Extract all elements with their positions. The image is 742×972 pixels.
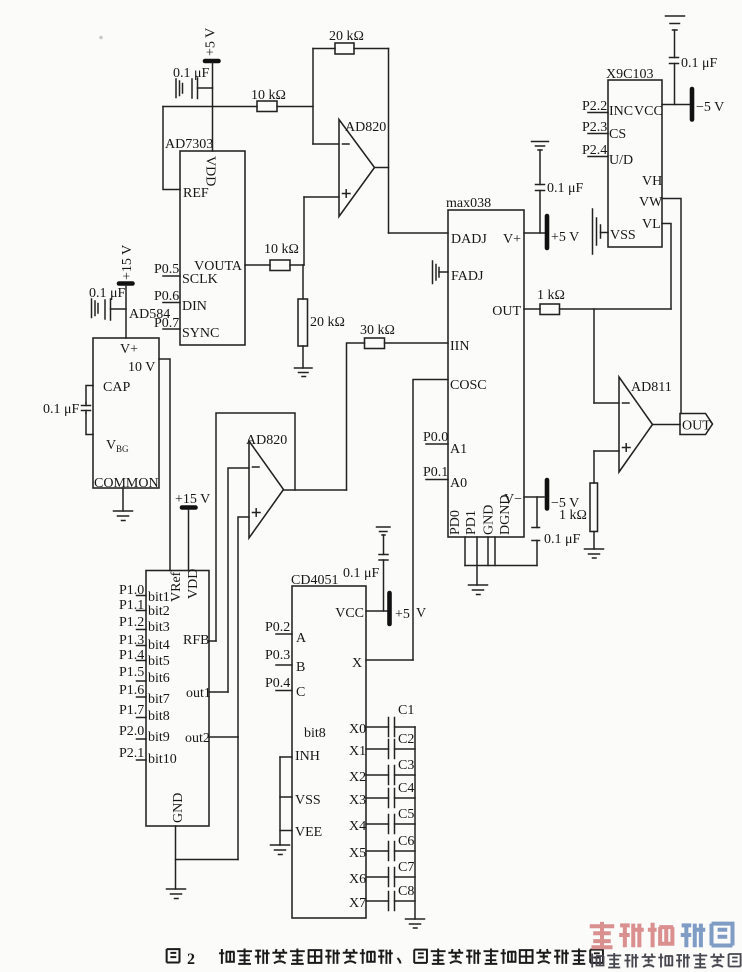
P0.5 net stub	[154, 262, 180, 277]
wire output	[653, 424, 681, 426]
svg-text:P2.0: P2.0	[119, 724, 144, 739]
svg-text:INH: INH	[295, 749, 320, 764]
pin VDD (rotated label)	[203, 156, 218, 186]
svg-text:VSS: VSS	[295, 793, 321, 808]
svg-text:DGND: DGND	[498, 495, 513, 535]
0.1 uF value label	[43, 402, 80, 417]
wire 1k to ground	[593, 532, 595, 550]
svg-text:VL: VL	[642, 217, 661, 232]
resistor 1 kOhm (to -5V)	[559, 483, 598, 532]
node OUT tag	[680, 414, 713, 435]
pin X1 with capacitor C2	[349, 732, 415, 759]
plus sign	[343, 190, 351, 197]
svg-text:REF: REF	[183, 186, 209, 201]
watermark 培训 (blue)	[681, 924, 733, 948]
resistor 10 kOhm (input)	[251, 88, 286, 112]
pin GND (rotated)	[482, 505, 497, 535]
pin IIN	[450, 339, 469, 354]
capacitor 0.1uF (max038 V+ decoupling)	[536, 150, 545, 233]
wire COSC down to CD4051 X	[413, 380, 448, 661]
wire OUT node	[560, 308, 672, 310]
svg-text:C8: C8	[398, 884, 414, 899]
wire VW to output node	[662, 199, 681, 414]
-5 V label	[551, 496, 579, 511]
watermark subtitle 射频和天线设计专家 (gray)	[590, 953, 741, 968]
power +15V terminal bar	[119, 281, 133, 286]
svg-text:X: X	[352, 656, 362, 671]
svg-text:X4: X4	[349, 819, 366, 834]
pin X0 with capacitor C1	[349, 703, 415, 737]
capacitor 0.1uF (AD584 supply decoupling)	[92, 299, 127, 320]
svg-text:C5: C5	[398, 807, 414, 822]
pin X7 with capacitor C8	[349, 884, 415, 911]
+15 V label	[175, 492, 210, 507]
caption: 图 2 信号源发生器频率控制、占空比调节和幅度调节电路	[167, 949, 180, 962]
IC max038 body	[446, 196, 524, 537]
svg-text:CS: CS	[609, 127, 626, 142]
wire VCC to -5V	[662, 104, 690, 106]
svg-text:bit8: bit8	[304, 726, 326, 741]
pin bit6 with P1.5 stub	[119, 665, 170, 686]
pin A with P0.2 stub	[265, 620, 307, 646]
wire feedback loop (RFB)	[216, 413, 295, 641]
capacitor 0.1uF (V- decoupling)	[532, 497, 540, 566]
svg-text:SCLK: SCLK	[182, 272, 218, 287]
svg-text:X6: X6	[349, 872, 366, 887]
svg-text:1 kΩ: 1 kΩ	[559, 508, 587, 523]
svg-text:AD820: AD820	[246, 433, 287, 448]
capacitor 0.1uF (AD7303 supply decoupling)	[176, 78, 213, 99]
svg-text:X0: X0	[349, 722, 366, 737]
svg-text:V+: V+	[120, 342, 138, 357]
svg-text:+5 V: +5 V	[551, 230, 579, 245]
wire GND to ground	[176, 826, 239, 889]
ground (DAC)	[167, 889, 186, 899]
svg-text:A1: A1	[450, 442, 467, 457]
svg-text:VDD: VDD	[203, 156, 218, 186]
power +5V terminal bar (max038)	[545, 216, 550, 248]
chassis ground (VSS)	[593, 209, 609, 254]
svg-text:P0.2: P0.2	[265, 620, 290, 635]
pin INH	[280, 749, 320, 764]
-5 V label	[696, 100, 724, 115]
svg-text:P0.4: P0.4	[265, 676, 290, 691]
wire VOUTA node down	[302, 265, 304, 299]
pin U/D with P2.4 stub	[582, 143, 633, 168]
svg-text:2: 2	[187, 951, 195, 968]
svg-text:A: A	[296, 631, 307, 646]
svg-text:AD811: AD811	[631, 380, 672, 395]
pin COSC	[450, 378, 487, 393]
wire V+ to +5V	[524, 232, 545, 234]
power +15V terminal bar (DAC)	[182, 505, 196, 510]
pin B with P0.3 stub	[265, 648, 305, 675]
op-amp U4 AD811	[619, 377, 672, 472]
power +5V terminal bar (CD4051)	[387, 593, 392, 624]
wire corner down to REF pin	[163, 107, 180, 190]
IC AD584 body	[93, 307, 170, 488]
svg-text:DIN: DIN	[182, 299, 207, 314]
minus sign	[343, 143, 350, 145]
svg-text:CAP: CAP	[103, 380, 130, 395]
svg-text:VW: VW	[639, 195, 663, 210]
svg-text:VH: VH	[642, 174, 662, 189]
pin VH	[642, 174, 662, 189]
pin X3 with capacitor C4	[349, 781, 415, 808]
plus sign	[623, 444, 631, 451]
IC AD7303 body	[165, 137, 245, 345]
svg-text:C1: C1	[398, 703, 414, 718]
svg-text:V+: V+	[503, 232, 521, 247]
wire +15V to VDD	[188, 510, 190, 571]
resistor 10 kOhm (VOUTA)	[264, 242, 299, 271]
P0.7 net stub	[154, 316, 180, 331]
svg-text:U/D: U/D	[609, 153, 633, 168]
hanging ground (V+ decoupling)	[532, 142, 549, 151]
pin DIN	[182, 299, 207, 314]
svg-text:B: B	[296, 660, 305, 675]
pin VW	[639, 195, 663, 210]
pin CS with P2.3 stub	[582, 120, 626, 142]
svg-text:C6: C6	[398, 834, 414, 849]
svg-text:+15 V: +15 V	[175, 492, 210, 507]
ground (AD584)	[114, 511, 133, 521]
svg-text:0.1 μF: 0.1 μF	[89, 286, 126, 301]
svg-text:V: V	[106, 438, 116, 453]
svg-text:bit8: bit8	[148, 709, 170, 724]
svg-text:VSS: VSS	[610, 228, 636, 243]
svg-text:out1: out1	[186, 686, 211, 701]
svg-text:DADJ: DADJ	[451, 232, 487, 247]
svg-text:CD4051: CD4051	[291, 573, 338, 588]
svg-text:OUT: OUT	[682, 419, 711, 434]
pin RFB	[183, 633, 216, 648]
0.1 uF value label	[547, 181, 584, 196]
pin VEE	[280, 825, 322, 840]
pin bit7 with P1.6 stub	[119, 683, 170, 707]
svg-text:PD1: PD1	[464, 510, 479, 535]
wire IIN	[347, 343, 449, 490]
wire COMMON to ground	[122, 488, 124, 511]
ground (digital)	[469, 585, 488, 595]
svg-text:P1.7: P1.7	[119, 703, 144, 718]
svg-text:BG: BG	[116, 444, 129, 454]
svg-text:0.1 μF: 0.1 μF	[547, 181, 584, 196]
svg-text:VCC: VCC	[634, 104, 663, 119]
pin out1	[186, 686, 228, 701]
svg-text:30 kΩ: 30 kΩ	[360, 323, 395, 338]
pin X5 with capacitor C6	[349, 834, 415, 861]
svg-text:AD7303: AD7303	[165, 137, 213, 152]
ground (CD4051)	[271, 845, 290, 855]
svg-text:C7: C7	[398, 860, 414, 875]
wire 10V output to DAC VRef	[159, 359, 170, 571]
svg-text:out2: out2	[185, 731, 210, 746]
pin GND (rotated)	[171, 793, 186, 823]
power -5V terminal bar (X9C103)	[690, 89, 695, 120]
svg-text:max038: max038	[446, 196, 491, 211]
wire non-inverting input from out2	[238, 517, 249, 737]
plus sign	[253, 509, 261, 516]
chassis ground (FADJ)	[433, 261, 449, 284]
svg-text:X1: X1	[349, 744, 366, 759]
label bit8	[304, 726, 326, 741]
svg-text:X5: X5	[349, 846, 366, 861]
wire VL to 1k node	[662, 224, 671, 310]
wire non-inverting input	[594, 451, 619, 483]
wire OUT to 1k	[524, 308, 540, 310]
wire inverting input from out1	[228, 468, 249, 692]
svg-text:P1.2: P1.2	[119, 615, 144, 630]
svg-text:20 kΩ: 20 kΩ	[329, 29, 364, 44]
svg-text:C2: C2	[398, 732, 414, 747]
pin VCC	[335, 606, 387, 621]
IC CD4051 body	[291, 573, 366, 918]
svg-text:0.1 μF: 0.1 μF	[173, 66, 210, 81]
svg-text:V: V	[416, 606, 426, 621]
svg-text:P0.5: P0.5	[154, 262, 179, 277]
svg-text:+5: +5	[395, 607, 410, 622]
pin SYNC	[182, 326, 219, 341]
svg-text:INC: INC	[609, 104, 633, 119]
watermark 易迪拓 (red)	[590, 922, 674, 947]
svg-text:P1.5: P1.5	[119, 665, 144, 680]
svg-text:OUT: OUT	[492, 304, 521, 319]
minus sign	[623, 402, 630, 404]
0.1 uF value label	[343, 566, 380, 581]
op-amp U3 AD820	[246, 433, 287, 538]
svg-text:bit7: bit7	[148, 692, 170, 707]
svg-text:AD820: AD820	[345, 120, 386, 135]
pin A0 with P0.1 stub	[423, 465, 467, 491]
pin V-	[504, 492, 522, 507]
capacitor 0.1uF (CD4051 decoupling)	[379, 535, 388, 611]
wire REF/10k node (horizontal)	[163, 106, 313, 108]
pin VL	[642, 217, 661, 232]
svg-text:0.1 μF: 0.1 μF	[343, 566, 380, 581]
svg-text:P1.6: P1.6	[119, 683, 144, 698]
pin bit3 with P1.2 stub	[119, 615, 170, 635]
wire V- to -5V	[524, 496, 544, 498]
wire output to 30k	[284, 489, 347, 491]
0.1 uF value label	[544, 532, 581, 547]
resistor 1 kOhm (OUT)	[537, 288, 565, 315]
pin DGND (rotated)	[498, 495, 513, 535]
pin bit10 with P2.1 stub	[119, 746, 177, 767]
wire capacitor bus	[414, 727, 416, 919]
pin X	[352, 656, 413, 671]
pin VCC	[634, 104, 663, 119]
svg-text:10 V: 10 V	[128, 360, 155, 375]
wire resistor to ground	[302, 346, 304, 368]
svg-text:P0.0: P0.0	[423, 430, 448, 445]
ground (capacitor bus)	[406, 919, 425, 928]
pin bit2 with P1.1 stub	[119, 598, 170, 619]
svg-text:1 kΩ: 1 kΩ	[537, 288, 565, 303]
pin VOUTA	[194, 259, 243, 274]
wire op-amp output to DADJ	[375, 168, 449, 234]
svg-text:RFB: RFB	[183, 633, 209, 648]
pin bit5 with P1.4 stub	[119, 648, 170, 669]
pin PD1 (rotated)	[464, 510, 479, 535]
power +5V terminal bar (top)	[205, 59, 219, 64]
svg-text:0.1 μF: 0.1 μF	[544, 532, 581, 547]
svg-text:AD584: AD584	[129, 307, 170, 322]
svg-text:bit9: bit9	[148, 730, 170, 745]
svg-text:COSC: COSC	[450, 378, 487, 393]
pin VBG	[106, 438, 129, 454]
svg-text:20 kΩ: 20 kΩ	[310, 315, 345, 330]
pin PD0 (rotated)	[448, 510, 463, 535]
pin SCLK	[182, 272, 218, 287]
svg-text:VRef: VRef	[169, 571, 184, 602]
svg-text:COMMON: COMMON	[94, 476, 159, 491]
pin bit9 with P2.0 stub	[119, 724, 170, 745]
svg-text:0.1 μF: 0.1 μF	[43, 402, 80, 417]
pin INC with P2.2 stub	[582, 99, 633, 119]
svg-text:X9C103: X9C103	[606, 67, 653, 82]
svg-text:X3: X3	[349, 793, 366, 808]
minus sign	[253, 466, 260, 468]
capacitor 0.1uF (CAP pin loop)	[82, 386, 94, 435]
pin VDD (rotated)	[186, 569, 201, 599]
pin REF	[183, 186, 209, 201]
wire INH/VSS/VEE bus to ground	[279, 757, 281, 845]
svg-text:0.1 μF: 0.1 μF	[681, 56, 718, 71]
svg-text:IIN: IIN	[450, 339, 469, 354]
hanging ground (VCC decoupling)	[666, 16, 685, 30]
pin FADJ	[451, 269, 484, 284]
pin X6 with capacitor C7	[349, 860, 415, 887]
pin VSS	[280, 793, 321, 808]
pin out2	[185, 731, 238, 746]
svg-text:GND: GND	[171, 793, 186, 823]
0.1 uF value label	[173, 66, 210, 81]
svg-text:bit1: bit1	[148, 590, 170, 605]
svg-text:FADJ: FADJ	[451, 269, 484, 284]
pin VRef (rotated)	[169, 571, 184, 602]
pin bit8 with P1.7 stub	[119, 703, 170, 724]
P0.6 net stub	[154, 289, 180, 304]
IC X9C103 body	[606, 67, 662, 247]
capacitor 0.1uF (X9C103 decoupling)	[670, 30, 679, 105]
svg-text:bit6: bit6	[148, 671, 170, 686]
svg-text:bit4: bit4	[148, 638, 170, 653]
0.1 uF value label	[681, 56, 718, 71]
svg-text:C3: C3	[398, 758, 414, 773]
svg-text:10 kΩ: 10 kΩ	[251, 88, 286, 103]
pin 10 V	[128, 360, 155, 375]
pin V+	[120, 342, 138, 357]
pin bit1 with P1.0 stub	[119, 583, 170, 605]
pin V+	[503, 232, 521, 247]
pin COMMON	[94, 476, 159, 491]
IC DAC body	[146, 571, 209, 827]
svg-text:P0.3: P0.3	[265, 648, 290, 663]
svg-text:PD0: PD0	[448, 510, 463, 535]
hanging ground (VCC decoupling)	[377, 527, 391, 535]
svg-text:VEE: VEE	[295, 825, 322, 840]
wire inverting input	[313, 143, 339, 145]
pin OUT	[492, 304, 521, 319]
wire VOUTA out	[245, 264, 304, 266]
svg-text:bit3: bit3	[148, 620, 170, 635]
+15 V label (rotated)	[120, 245, 135, 280]
svg-text:SYNC: SYNC	[182, 326, 219, 341]
op-amp U2 AD820	[339, 120, 386, 217]
pin DADJ	[451, 232, 487, 247]
0.1 uF value label	[89, 286, 126, 301]
bottom pin stubs PD0/PD1/GND/DGND	[465, 537, 537, 585]
svg-text:+5 V: +5 V	[204, 28, 219, 56]
resistor 20 kOhm (to ground, vertical)	[298, 299, 345, 346]
svg-text:+15 V: +15 V	[120, 245, 135, 280]
pin X2 with capacitor C3	[349, 758, 415, 785]
ground (AD811 bias)	[585, 549, 604, 558]
wire non-inverting input	[304, 197, 339, 265]
svg-text:A0: A0	[450, 476, 467, 491]
svg-text:X2: X2	[349, 770, 366, 785]
pin X4 with capacitor C5	[349, 807, 415, 834]
resistor 30 kOhm (IIN)	[360, 323, 395, 349]
feedback loop wires	[313, 49, 389, 234]
scan speck	[99, 36, 103, 40]
svg-text:bit2: bit2	[148, 604, 170, 619]
+5 V label (rotated)	[204, 28, 219, 56]
svg-text:−5 V: −5 V	[696, 100, 724, 115]
svg-text:VCC: VCC	[335, 606, 364, 621]
svg-text:VDD: VDD	[186, 569, 201, 599]
resistor 20 kOhm (feedback)	[329, 29, 364, 54]
pin CAP	[103, 380, 130, 395]
svg-text:P2.1: P2.1	[119, 746, 144, 761]
pin bit4 with P1.3 stub	[119, 633, 170, 653]
svg-text:C4: C4	[398, 781, 414, 796]
wire +5V down to AD7303 VDD	[212, 63, 214, 151]
pin A1 with P0.0 stub	[423, 430, 467, 457]
svg-text:GND: GND	[482, 505, 497, 535]
wire +15V to V+	[125, 285, 127, 338]
+5 V label	[551, 230, 579, 245]
svg-text:C: C	[296, 685, 305, 700]
pin VSS	[610, 228, 636, 243]
wire inverting node	[594, 309, 619, 403]
pin C with P0.4 stub	[265, 676, 305, 700]
svg-text:X7: X7	[349, 896, 366, 911]
svg-text:bit5: bit5	[148, 654, 170, 669]
+5 V label	[395, 606, 426, 622]
power -5V terminal bar	[545, 480, 550, 509]
svg-text:bit10: bit10	[148, 752, 177, 767]
svg-text:10 kΩ: 10 kΩ	[264, 242, 299, 257]
ground (below 20k)	[295, 368, 313, 377]
svg-text:P0.1: P0.1	[423, 465, 448, 480]
wire out2 down	[237, 737, 239, 860]
